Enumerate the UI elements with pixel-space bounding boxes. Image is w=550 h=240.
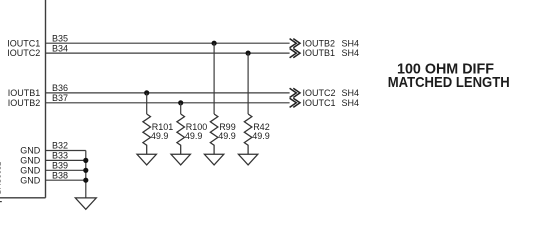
junction dot R101/wire IOUTB1 bbox=[144, 90, 149, 95]
off-page connector chevron on IOUTC1 wire bbox=[290, 39, 300, 48]
junction dot GND bus / B33 bbox=[83, 158, 88, 163]
svg-text:IOUTC2: IOUTC2 bbox=[7, 48, 40, 58]
wire IOUTC1 net (pin B35 to off-page) bbox=[46, 42, 290, 44]
junction dot R99/wire IOUTC1 bbox=[212, 41, 217, 46]
IC U1 body bottom edge bbox=[0, 197, 46, 199]
wire IOUTB1 net (pin B36 to off-page) bbox=[46, 92, 290, 94]
svg-text:B38: B38 bbox=[52, 170, 68, 180]
off-page connector chevron on IOUTB1 wire bbox=[290, 88, 300, 97]
svg-text:B33: B33 bbox=[52, 151, 68, 161]
svg-text:B35: B35 bbox=[52, 33, 68, 43]
svg-text:GND: GND bbox=[20, 156, 41, 166]
off-page connector chevron on IOUTC2 wire bbox=[290, 49, 300, 58]
svg-text:GND: GND bbox=[20, 146, 41, 156]
resistor R101 bbox=[143, 114, 151, 154]
svg-text:SH4: SH4 bbox=[342, 48, 360, 58]
svg-text:49.9: 49.9 bbox=[218, 131, 236, 141]
svg-text:IOUTB2: IOUTB2 bbox=[303, 38, 336, 48]
svg-text:GND: GND bbox=[20, 175, 41, 185]
junction dot GND bus / B38 bbox=[83, 178, 88, 183]
wire vertical R99 drop bbox=[213, 43, 215, 114]
ground under R101 bbox=[137, 154, 156, 165]
junction dot R42/wire IOUTC2 bbox=[246, 51, 251, 56]
junction dot R100/wire IOUTB2 bbox=[178, 100, 183, 105]
svg-text:GND: GND bbox=[20, 166, 41, 176]
wire GND pin B39 bbox=[46, 169, 86, 171]
IC U1 small cut-off mark lower-left bbox=[0, 201, 2, 203]
resistor R100 bbox=[177, 114, 185, 154]
junction dot GND bus / B39 bbox=[83, 168, 88, 173]
ground under R42 bbox=[238, 154, 257, 165]
wire GND vertical bus bbox=[85, 151, 87, 198]
svg-text:SH4: SH4 bbox=[342, 38, 360, 48]
ground under R100 bbox=[171, 154, 190, 165]
svg-text:B34: B34 bbox=[52, 43, 68, 53]
svg-text:49.9: 49.9 bbox=[252, 131, 270, 141]
svg-text:DAC5682: DAC5682 bbox=[0, 162, 3, 195]
ground symbol under GND bus bbox=[75, 198, 96, 209]
wire GND pin B32 bbox=[46, 150, 86, 152]
svg-text:IOUTC1: IOUTC1 bbox=[7, 38, 40, 48]
wire GND pin B33 bbox=[46, 159, 86, 161]
svg-text:MATCHED LENGTH: MATCHED LENGTH bbox=[388, 74, 510, 91]
ground under R99 bbox=[204, 154, 223, 165]
svg-text:49.9: 49.9 bbox=[151, 131, 169, 141]
wire vertical R100 drop bbox=[180, 103, 182, 114]
svg-text:IOUTB2: IOUTB2 bbox=[8, 98, 41, 108]
wire vertical R101 drop bbox=[146, 93, 148, 114]
off-page connector chevron on IOUTB2 wire bbox=[290, 98, 300, 107]
svg-text:B39: B39 bbox=[52, 161, 68, 171]
IC U1 body right edge bbox=[45, 0, 47, 198]
svg-text:IOUTC2: IOUTC2 bbox=[303, 88, 336, 98]
svg-text:IOUTB1: IOUTB1 bbox=[303, 48, 336, 58]
svg-text:B32: B32 bbox=[52, 141, 68, 151]
wire IOUTC2 net (pin B34 to off-page) bbox=[46, 52, 290, 54]
resistor R42 bbox=[244, 114, 252, 154]
wire GND pin B38 bbox=[46, 179, 86, 181]
svg-text:SH4: SH4 bbox=[342, 98, 360, 108]
svg-text:B37: B37 bbox=[52, 93, 68, 103]
svg-text:SH4: SH4 bbox=[342, 88, 360, 98]
svg-text:IOUTB1: IOUTB1 bbox=[8, 88, 41, 98]
svg-text:IOUTC1: IOUTC1 bbox=[303, 98, 336, 108]
wire vertical R42 drop bbox=[247, 53, 249, 114]
svg-text:49.9: 49.9 bbox=[185, 131, 203, 141]
svg-text:B36: B36 bbox=[52, 83, 68, 93]
resistor R99 bbox=[210, 114, 218, 154]
wire IOUTB2 net (pin B37 to off-page) bbox=[46, 102, 290, 104]
